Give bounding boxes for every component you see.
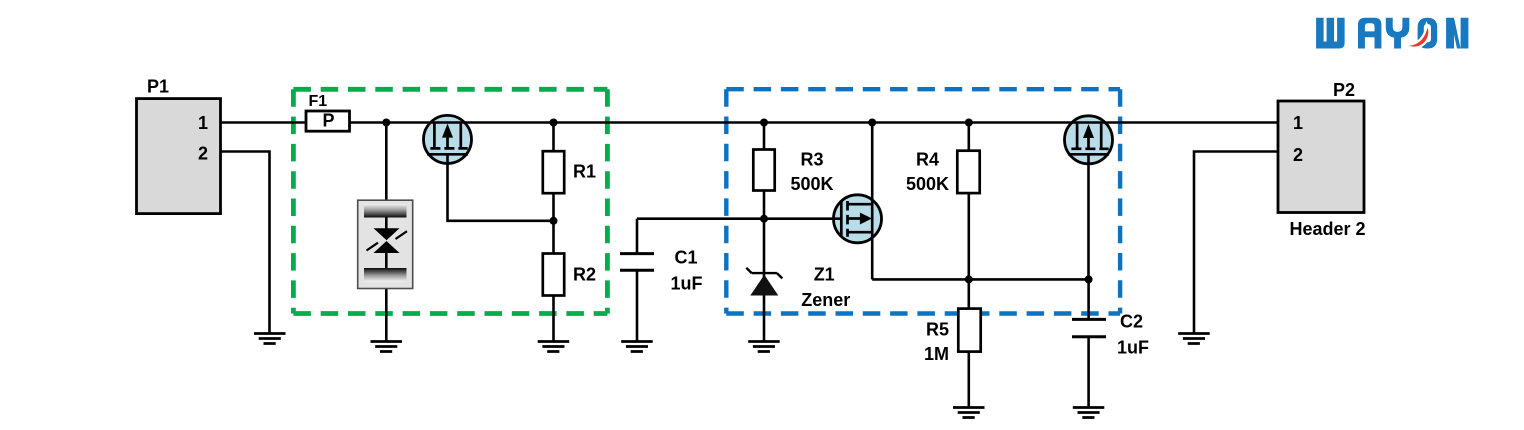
svg-text:500K: 500K bbox=[790, 174, 833, 194]
svg-text:R5: R5 bbox=[926, 320, 949, 340]
svg-text:Zener: Zener bbox=[801, 290, 850, 310]
svg-text:R1: R1 bbox=[573, 162, 596, 182]
svg-text:C2: C2 bbox=[1120, 311, 1143, 331]
svg-text:P2: P2 bbox=[1333, 80, 1355, 100]
svg-text:P1: P1 bbox=[147, 77, 169, 97]
svg-text:2: 2 bbox=[1293, 145, 1303, 165]
svg-text:500K: 500K bbox=[906, 174, 949, 194]
svg-text:C1: C1 bbox=[675, 248, 698, 268]
svg-text:Header 2: Header 2 bbox=[1290, 219, 1366, 239]
svg-text:2: 2 bbox=[198, 144, 208, 164]
svg-text:1: 1 bbox=[198, 113, 208, 133]
svg-text:R4: R4 bbox=[916, 150, 939, 170]
svg-text:P: P bbox=[323, 111, 335, 131]
svg-text:R2: R2 bbox=[573, 265, 596, 285]
svg-text:1M: 1M bbox=[924, 344, 949, 364]
svg-text:F1: F1 bbox=[309, 93, 328, 110]
svg-text:Z1: Z1 bbox=[814, 265, 835, 285]
svg-text:1: 1 bbox=[1293, 113, 1303, 133]
svg-text:1uF: 1uF bbox=[1117, 337, 1149, 357]
svg-text:R3: R3 bbox=[800, 150, 823, 170]
svg-text:1uF: 1uF bbox=[671, 274, 703, 294]
